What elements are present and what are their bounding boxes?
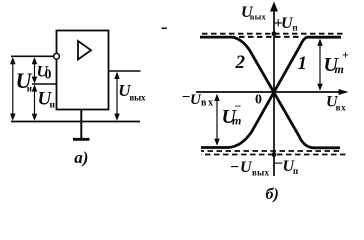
node dot −U_п on axis <box>272 152 277 157</box>
svg-text:+: + <box>342 48 349 62</box>
op-amp block U1 <box>57 31 109 110</box>
wire to ground <box>80 110 82 139</box>
measure arrow U_m+ <box>317 39 323 91</box>
svg-text:+U: +U <box>274 15 294 32</box>
dashed line +U_п <box>202 33 344 35</box>
transfer curve 2 <box>200 37 340 148</box>
inverting input bubble <box>54 53 60 59</box>
svg-text:m: m <box>335 62 344 76</box>
svg-text:п: п <box>292 23 298 33</box>
voltage arrow U_вых <box>114 72 120 121</box>
measure arrow U_m− <box>214 94 220 146</box>
svg-text:0: 0 <box>255 93 262 108</box>
dashed line −U_вых level <box>201 150 341 152</box>
op-amp triangle symbol <box>78 41 91 60</box>
voltage arrow U_н <box>32 84 38 120</box>
node dot +U_п on axis <box>272 31 277 36</box>
transfer curve 1 <box>201 37 341 147</box>
node divider wire <box>32 83 57 85</box>
stray scan mark <box>162 27 168 29</box>
svg-text:н: н <box>50 101 56 111</box>
svg-text:а): а) <box>74 148 88 167</box>
svg-text:вх: вх <box>201 98 213 109</box>
axis U_вх (horizontal) <box>196 89 349 95</box>
svg-text:п: п <box>293 166 298 176</box>
dashed line −U_п <box>201 154 346 156</box>
axis U_вых (vertical) <box>270 2 278 177</box>
ground rail wire <box>11 121 140 123</box>
ground <box>73 138 90 141</box>
svg-text:вых: вых <box>130 93 147 103</box>
svg-text:вых: вых <box>250 12 267 22</box>
svg-text:2: 2 <box>235 52 246 73</box>
output wire <box>109 70 141 72</box>
svg-text:1: 1 <box>298 53 308 74</box>
dashed saturation level U_m+ middle <box>233 36 302 38</box>
voltage arrow U_0 <box>32 57 38 84</box>
svg-text:вых: вых <box>252 168 270 178</box>
input wire <box>11 55 54 57</box>
voltage arrow U_и <box>10 57 16 121</box>
svg-text:−: − <box>230 159 240 176</box>
svg-text:вх: вх <box>336 103 347 113</box>
svg-text:−: − <box>235 99 242 113</box>
svg-text:0: 0 <box>45 66 52 81</box>
svg-text:m: m <box>232 114 241 128</box>
svg-text:б): б) <box>266 186 279 203</box>
svg-text:и: и <box>27 84 32 94</box>
